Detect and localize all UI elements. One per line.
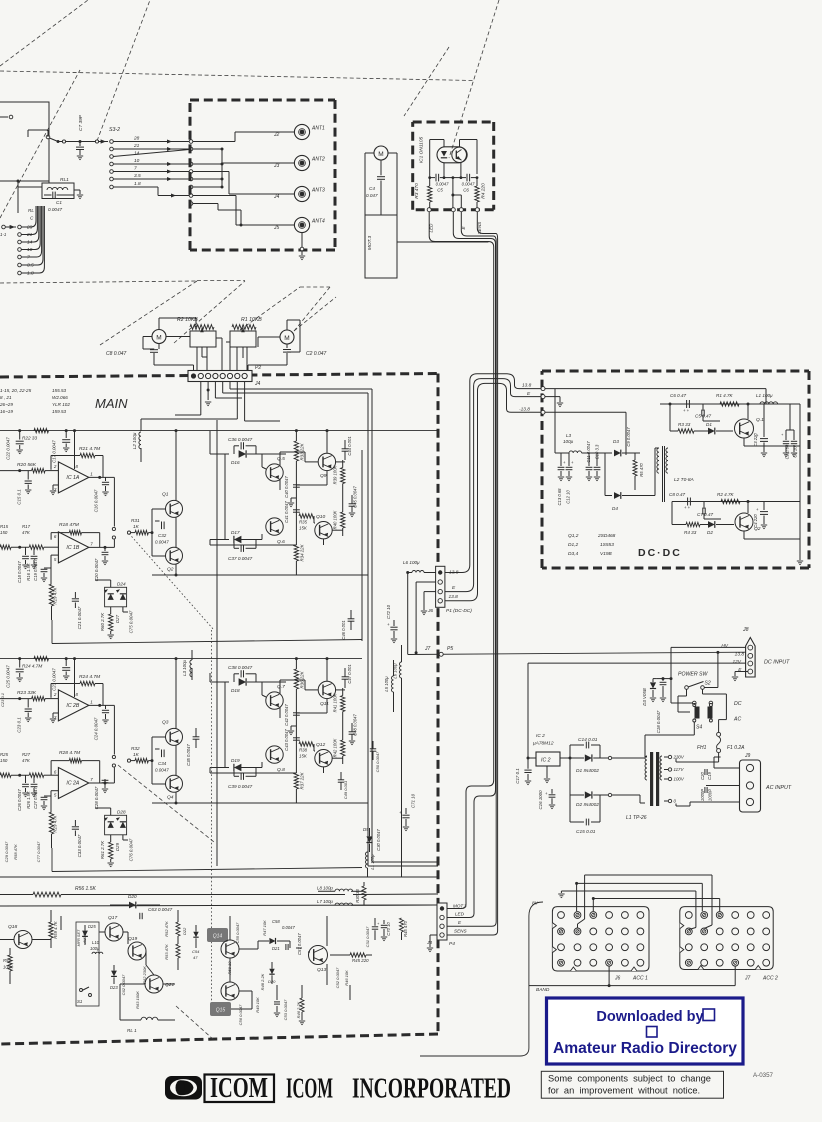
svg-text:C8 0.47: C8 0.47: [669, 492, 686, 497]
svg-text:L6 100μ: L6 100μ: [403, 560, 420, 565]
svg-text:R28 4.7M: R28 4.7M: [59, 750, 81, 756]
svg-text:F1 0.2A: F1 0.2A: [727, 745, 745, 751]
svg-text:R24 4.7M: R24 4.7M: [79, 674, 101, 680]
svg-text:C26 0.0047: C26 0.0047: [17, 789, 22, 811]
svg-text:D3,4: D3,4: [568, 551, 578, 557]
svg-text:V19B: V19B: [600, 551, 613, 557]
svg-text:C46 0.001: C46 0.001: [341, 620, 346, 639]
svg-text:C28 0.0047: C28 0.0047: [94, 786, 99, 809]
svg-text:ACC 2: ACC 2: [762, 976, 778, 982]
svg-text:1K: 1K: [133, 524, 140, 529]
svg-text:D24: D24: [117, 581, 126, 586]
svg-text:J6: J6: [614, 976, 621, 982]
svg-text:12V: 12V: [732, 659, 741, 665]
svg-text:C15 0.01: C15 0.01: [576, 829, 596, 835]
svg-text:C29 0.0047: C29 0.0047: [4, 841, 9, 862]
svg-text:155.53: 155.53: [52, 388, 66, 393]
svg-text:J7: J7: [424, 646, 431, 652]
svg-text:1000P: 1000P: [700, 789, 705, 801]
svg-text:C39 0.0047: C39 0.0047: [228, 784, 253, 789]
svg-text:SENS: SENS: [454, 929, 467, 934]
svg-text:D19: D19: [231, 758, 240, 763]
svg-text:117V: 117V: [674, 767, 685, 772]
svg-text:L2 100μ: L2 100μ: [132, 432, 137, 449]
svg-text:2: 2: [53, 692, 57, 697]
svg-text:Q10: Q10: [316, 514, 326, 520]
svg-text:AC INPUT: AC INPUT: [765, 785, 792, 791]
svg-text:D22: D22: [182, 927, 187, 935]
svg-text:Q.7: Q.7: [277, 684, 285, 690]
svg-text:R2 4.7K: R2 4.7K: [717, 492, 735, 497]
svg-text:C18 0.0047: C18 0.0047: [656, 710, 661, 733]
svg-text:47K: 47K: [22, 530, 31, 535]
svg-text:R29 47K: R29 47K: [53, 814, 58, 832]
svg-text:R16 1.5K: R16 1.5K: [26, 563, 31, 581]
svg-text:L1 100μ: L1 100μ: [370, 854, 375, 870]
svg-text:D2 IN4002: D2 IN4002: [576, 802, 599, 808]
svg-text:C43 0.0047: C43 0.0047: [284, 729, 289, 751]
svg-text:DC·DC: DC·DC: [638, 547, 682, 559]
svg-text:MOT.3: MOT.3: [367, 236, 373, 251]
svg-text:P2: P2: [255, 365, 261, 371]
svg-text:MFR SET: MFR SET: [77, 929, 81, 946]
svg-text:R52 47K: R52 47K: [164, 921, 169, 937]
svg-text:HV: HV: [721, 643, 728, 649]
svg-text:D5: D5: [363, 827, 369, 832]
svg-text:R24 4.7M: R24 4.7M: [22, 664, 42, 669]
svg-text:C31 0.0047: C31 0.0047: [365, 926, 370, 947]
svg-text:R53 47K: R53 47K: [164, 944, 169, 960]
svg-text:S1: S1: [77, 999, 83, 1004]
svg-text:C6 0.47: C6 0.47: [670, 393, 687, 398]
svg-text:ANT3: ANT3: [311, 188, 325, 194]
svg-text:YLR 102: YLR 102: [52, 402, 70, 407]
svg-text:C16 1000: C16 1000: [538, 790, 543, 810]
svg-text:C57 0.0047: C57 0.0047: [297, 933, 302, 955]
svg-text:C25 0.0047: C25 0.0047: [6, 665, 11, 688]
svg-text:P4: P4: [449, 941, 455, 947]
svg-text:Q1,2: Q1,2: [568, 533, 579, 539]
svg-text:MAIN: MAIN: [95, 396, 128, 411]
svg-text:R17: R17: [22, 524, 31, 529]
svg-text:R21 4.7M: R21 4.7M: [79, 446, 101, 452]
svg-text:ANT4: ANT4: [311, 219, 325, 225]
svg-text:Q9: Q9: [320, 473, 327, 479]
svg-text:C37 0.0047: C37 0.0047: [228, 556, 253, 561]
svg-text:W2.066: W2.066: [52, 395, 68, 400]
svg-text:C19: C19: [707, 771, 712, 779]
svg-text:R3 470: R3 470: [414, 183, 420, 199]
svg-text:ANT2: ANT2: [311, 157, 325, 163]
svg-text:R5 470: R5 470: [639, 463, 644, 477]
svg-text:L10: L10: [92, 940, 100, 945]
svg-text:R25: R25: [0, 752, 9, 757]
svg-text:Q15: Q15: [216, 1008, 226, 1014]
svg-text:R39 100K: R39 100K: [333, 465, 338, 484]
svg-text:1S553: 1S553: [600, 542, 614, 548]
svg-text:D16: D16: [231, 460, 240, 465]
svg-text:IC 1B: IC 1B: [66, 545, 80, 551]
svg-text:C45 0.0047: C45 0.0047: [353, 486, 358, 508]
svg-text:C76 0.0047: C76 0.0047: [129, 838, 134, 861]
svg-text:MOT.3: MOT.3: [453, 904, 467, 909]
svg-text:LED: LED: [455, 912, 465, 917]
svg-text:R58 47K: R58 47K: [13, 844, 18, 860]
svg-text:Q1: Q1: [162, 492, 169, 498]
svg-text:C62 0.0047: C62 0.0047: [121, 974, 126, 995]
svg-text:R41 100K: R41 100K: [333, 693, 338, 712]
svg-text:0.047: 0.047: [366, 193, 378, 198]
svg-text:R15: R15: [0, 524, 9, 529]
svg-text:C50 0.0047: C50 0.0047: [375, 751, 380, 772]
svg-text:-13.8: -13.8: [519, 407, 530, 413]
svg-text:R40 100K: R40 100K: [333, 510, 338, 529]
svg-text:0.0047: 0.0047: [436, 182, 449, 187]
svg-text:C23 0.1: C23 0.1: [17, 717, 22, 733]
svg-text:R47 10K: R47 10K: [262, 920, 267, 936]
svg-text:C21 0.0047: C21 0.0047: [77, 606, 82, 629]
svg-text:DC: DC: [734, 701, 742, 707]
svg-text:IC1 ON1105: IC1 ON1105: [419, 137, 425, 164]
svg-text:C9 0.0047: C9 0.0047: [626, 427, 631, 447]
svg-text:AC: AC: [733, 717, 741, 723]
svg-text:IC 2: IC 2: [541, 758, 551, 764]
svg-text:ACC 1: ACC 1: [632, 976, 648, 982]
svg-text:ICOM: ICOM: [286, 1073, 333, 1105]
svg-text:R4 33: R4 33: [684, 530, 697, 535]
svg-text:Q.8: Q.8: [277, 767, 285, 773]
svg-text:0.0047: 0.0047: [155, 768, 169, 773]
svg-text:for an improvement without not: for an improvement without notice.: [548, 1086, 700, 1096]
svg-text:C42 0.0047: C42 0.0047: [284, 704, 289, 726]
svg-text:C55 0.0047: C55 0.0047: [235, 922, 240, 943]
svg-text:L1 TP-26: L1 TP-26: [626, 815, 647, 821]
svg-text:J5: J5: [273, 225, 280, 231]
svg-text:C32: C32: [158, 533, 167, 538]
svg-text:15K: 15K: [299, 526, 308, 531]
svg-text:SENS: SENS: [477, 221, 482, 234]
svg-text:R27: R27: [22, 752, 31, 757]
svg-text:Q2: Q2: [167, 567, 174, 573]
svg-text:26~29: 26~29: [0, 402, 13, 407]
svg-text:Q13: Q13: [317, 967, 327, 973]
svg-text:C44 0.001: C44 0.001: [347, 436, 352, 455]
svg-text:13.8: 13.8: [522, 383, 532, 389]
svg-text:Downloaded by: Downloaded by: [596, 1009, 703, 1025]
svg-text:R32: R32: [131, 746, 140, 751]
svg-text:159.53: 159.53: [52, 409, 66, 414]
svg-text:C35 0.0047: C35 0.0047: [186, 744, 191, 766]
svg-text:R20 56K: R20 56K: [17, 462, 37, 468]
svg-text:C5: C5: [437, 188, 443, 193]
svg-text:C6: C6: [463, 188, 469, 193]
svg-text:R18 47M: R18 47M: [59, 522, 80, 528]
svg-text:21: 21: [133, 143, 140, 149]
svg-text:FH1: FH1: [697, 745, 707, 751]
svg-text:8 , 21: 8 , 21: [0, 395, 12, 400]
svg-text:C7 39P: C7 39P: [78, 114, 84, 131]
svg-text:J7: J7: [744, 976, 751, 982]
svg-text:R36 22K: R36 22K: [300, 670, 305, 688]
svg-text:J3: J3: [273, 163, 280, 169]
svg-text:J6: J6: [427, 608, 433, 614]
svg-text:47K: 47K: [22, 758, 31, 763]
svg-text:ANT1: ANT1: [311, 126, 325, 132]
svg-text:J9: J9: [744, 753, 751, 759]
svg-text:BAND: BAND: [536, 987, 550, 993]
svg-text:C56 0.0047: C56 0.0047: [238, 1004, 243, 1025]
svg-text:L5 100μ: L5 100μ: [384, 676, 389, 692]
svg-text:0.0047: 0.0047: [48, 207, 62, 212]
svg-text:C2 0.047: C2 0.047: [306, 351, 327, 357]
svg-text:0.0047: 0.0047: [462, 182, 475, 187]
svg-text:IC 2A: IC 2A: [66, 781, 80, 787]
svg-text:13.8: 13.8: [449, 594, 459, 600]
svg-text:C1 10: C1 10: [793, 446, 798, 458]
svg-text:D1,2: D1,2: [568, 542, 578, 548]
svg-text:C53 0.0047: C53 0.0047: [283, 999, 288, 1020]
svg-text:150: 150: [0, 530, 8, 535]
svg-text:D2: D2: [707, 530, 713, 535]
svg-text:C18 0.0047: C18 0.0047: [17, 561, 22, 583]
svg-text:J4: J4: [273, 194, 280, 200]
svg-text:0.0047: 0.0047: [155, 540, 169, 545]
svg-text:2: 2: [53, 464, 57, 469]
svg-text:IC 2: IC 2: [536, 733, 545, 739]
svg-text:R45 470: R45 470: [403, 920, 408, 937]
svg-text:C72 10: C72 10: [386, 604, 391, 619]
svg-text:0.0047: 0.0047: [282, 925, 295, 930]
svg-text:P5: P5: [447, 646, 453, 652]
svg-text:R30 33: R30 33: [355, 889, 360, 903]
svg-text:C47 0.001: C47 0.001: [347, 664, 352, 683]
svg-text:Q4: Q4: [167, 795, 174, 801]
svg-text:S4: S4: [696, 725, 702, 731]
svg-text:2SD468: 2SD468: [597, 533, 616, 539]
svg-text:+ +: + +: [684, 505, 691, 510]
svg-text:J4: J4: [254, 381, 261, 387]
svg-text:C16 0.0047: C16 0.0047: [94, 489, 99, 512]
svg-text:C36 0.0047: C36 0.0047: [228, 437, 253, 442]
svg-text:D20: D20: [128, 894, 137, 899]
svg-text:D25: D25: [88, 924, 96, 929]
svg-text:1.8: 1.8: [134, 181, 141, 187]
svg-text:IC 2B: IC 2B: [66, 703, 80, 709]
svg-text:Some components subject to cha: Some components subject to change: [548, 1074, 711, 1084]
svg-text:L7 100μ: L7 100μ: [317, 899, 333, 904]
svg-text:C49 0.001: C49 0.001: [343, 781, 348, 799]
svg-text:J2: J2: [273, 132, 280, 138]
svg-text:D17: D17: [231, 530, 240, 535]
svg-text:D1: D1: [706, 422, 712, 427]
svg-text:1K: 1K: [133, 752, 140, 757]
svg-text:R46 10K: R46 10K: [344, 970, 349, 986]
svg-text:INCORPORATED: INCORPORATED: [352, 1073, 511, 1105]
svg-text:C38 0.0047: C38 0.0047: [228, 665, 253, 670]
svg-text:R23 33K: R23 33K: [17, 690, 37, 696]
svg-text:Q19: Q19: [128, 936, 138, 942]
svg-text:C20 0.0047: C20 0.0047: [94, 558, 99, 581]
svg-text:R19 47K: R19 47K: [53, 586, 58, 604]
svg-text:D1 IN4002: D1 IN4002: [576, 768, 599, 774]
svg-text:C15 0.1: C15 0.1: [17, 489, 22, 505]
svg-text:Q12: Q12: [316, 742, 326, 748]
svg-text:15K: 15K: [299, 754, 308, 759]
svg-text:+: +: [387, 622, 390, 627]
svg-text:1-15, 20, 22-25: 1-15, 20, 22-25: [0, 388, 32, 393]
svg-text:3.5: 3.5: [134, 173, 141, 179]
svg-text:100V: 100V: [674, 777, 685, 782]
svg-text:C30 0.0047: C30 0.0047: [376, 829, 381, 851]
svg-text:C24 0.0047: C24 0.0047: [94, 717, 99, 740]
svg-text:C13 0.68: C13 0.68: [557, 488, 562, 506]
svg-text:μA78M12: μA78M12: [532, 741, 554, 747]
svg-text:POWER SW: POWER SW: [678, 672, 708, 678]
svg-text:C22 0.0047: C22 0.0047: [6, 437, 11, 460]
svg-text:S2: S2: [705, 681, 711, 687]
svg-text:D18: D18: [231, 688, 240, 693]
svg-text:C54: C54: [192, 949, 200, 954]
svg-text:C34: C34: [158, 761, 167, 766]
svg-text:R49 10K: R49 10K: [255, 997, 260, 1013]
svg-text:1000P: 1000P: [708, 789, 713, 801]
svg-text:Q21: Q21: [165, 982, 175, 988]
svg-text:Amateur Radio Directory: Amateur Radio Directory: [553, 1040, 737, 1057]
svg-text:Q11: Q11: [320, 701, 329, 707]
svg-text:Q.1: Q.1: [756, 417, 764, 423]
svg-text:R42 100K: R42 100K: [333, 738, 338, 757]
svg-text:C20: C20: [700, 771, 705, 779]
svg-text:C70 10: C70 10: [386, 922, 391, 936]
svg-text:C75 0.0047: C75 0.0047: [129, 610, 134, 633]
svg-text:Q.5: Q.5: [277, 456, 285, 462]
svg-text:DC INPUT: DC INPUT: [764, 660, 790, 666]
svg-text:C14 0.01: C14 0.01: [578, 737, 598, 743]
svg-text:L2 T0-8A: L2 T0-8A: [674, 477, 694, 483]
svg-text:100μ: 100μ: [90, 946, 100, 951]
svg-text:R3 33: R3 33: [678, 422, 691, 427]
svg-text:D3 V05B: D3 V05B: [642, 688, 647, 706]
svg-text:Q.6: Q.6: [277, 539, 285, 545]
svg-text:C4 220: C4 220: [753, 514, 758, 528]
svg-text:R33 22K: R33 22K: [300, 442, 305, 460]
svg-text:R60 2.7K: R60 2.7K: [100, 612, 105, 631]
svg-text:C12 10: C12 10: [566, 490, 571, 504]
svg-text:C8 0.047: C8 0.047: [106, 351, 127, 357]
svg-text:L8 100μ: L8 100μ: [317, 886, 333, 891]
svg-text:LED: LED: [429, 223, 434, 233]
svg-text:D4: D4: [612, 506, 618, 511]
svg-text:47: 47: [193, 955, 198, 960]
svg-text:L3: L3: [566, 433, 572, 438]
svg-text:Q3: Q3: [162, 720, 169, 726]
svg-text:13.8: 13.8: [735, 651, 745, 657]
svg-text:D27: D27: [115, 614, 120, 623]
svg-text:RL1: RL1: [60, 177, 69, 183]
svg-text:14: 14: [134, 150, 140, 156]
svg-text:C48 0.0047: C48 0.0047: [353, 714, 358, 736]
svg-text:R61 2.7K: R61 2.7K: [100, 840, 105, 859]
svg-text:100μ: 100μ: [563, 439, 574, 444]
svg-text:D3: D3: [613, 439, 619, 444]
svg-text:10: 10: [134, 158, 140, 164]
svg-text:L3 100μ: L3 100μ: [182, 659, 187, 675]
svg-text:M: M: [378, 151, 383, 158]
svg-text:D23: D23: [110, 985, 118, 990]
svg-text:16~19: 16~19: [0, 409, 13, 414]
svg-text:R59 4.7K: R59 4.7K: [53, 921, 58, 939]
svg-text:R62 230K: R62 230K: [142, 966, 147, 984]
svg-text:R22 33: R22 33: [22, 436, 38, 441]
svg-text:C40 0.0047: C40 0.0047: [284, 476, 289, 498]
svg-text:230V: 230V: [673, 755, 685, 760]
svg-text:1-1: 1-1: [0, 232, 7, 237]
svg-text:R63 100K: R63 100K: [135, 991, 140, 1009]
svg-text:+ +: + +: [683, 408, 690, 413]
svg-text:R1 10KB: R1 10KB: [241, 317, 262, 323]
svg-text:C19 0.0047: C19 0.0047: [33, 559, 38, 581]
svg-text:R1 4.7K: R1 4.7K: [716, 393, 734, 398]
svg-text:C58: C58: [272, 919, 280, 924]
svg-text:P1 (DC-DC): P1 (DC-DC): [446, 608, 472, 614]
svg-text:R56 1.5K: R56 1.5K: [75, 886, 97, 892]
svg-text:R26 1.5K: R26 1.5K: [26, 791, 31, 809]
svg-text:M: M: [284, 335, 289, 342]
svg-text:28: 28: [133, 135, 140, 141]
svg-text:C23 0.0047: C23 0.0047: [52, 668, 57, 691]
svg-text:S3-2: S3-2: [109, 127, 120, 133]
svg-text:Q14: Q14: [213, 934, 223, 940]
svg-text:C52 0.0047: C52 0.0047: [335, 967, 340, 988]
svg-text:C23 0.1: C23 0.1: [0, 693, 5, 707]
svg-text:J8: J8: [742, 627, 749, 633]
svg-text:150: 150: [0, 758, 8, 763]
svg-text:R35: R35: [299, 520, 308, 525]
svg-text:R4 220: R4 220: [481, 183, 487, 199]
svg-text:C41 0.0047: C41 0.0047: [284, 501, 289, 523]
svg-text:C4: C4: [369, 186, 375, 191]
svg-text:ICOM: ICOM: [210, 1072, 268, 1104]
svg-text:C1: C1: [56, 200, 62, 205]
svg-text:C77 0.0047: C77 0.0047: [36, 841, 41, 862]
svg-text:C17 0.0047: C17 0.0047: [52, 440, 57, 463]
svg-text:+: +: [399, 810, 402, 815]
svg-text:R37 22K: R37 22K: [300, 771, 305, 789]
svg-text:R34 22K: R34 22K: [300, 543, 305, 561]
svg-text:R31: R31: [131, 518, 140, 523]
svg-text:RL 1: RL 1: [127, 1028, 137, 1033]
svg-text:C27 0.0047: C27 0.0047: [33, 787, 38, 809]
svg-text:IC 1A: IC 1A: [66, 475, 80, 481]
svg-text:R45 220: R45 220: [352, 958, 369, 963]
svg-text:Q18: Q18: [8, 924, 18, 930]
svg-text:C63 0.0047: C63 0.0047: [148, 907, 173, 912]
svg-text:D29: D29: [115, 842, 120, 851]
svg-text:C71 10: C71 10: [411, 793, 416, 808]
svg-text:R38: R38: [299, 748, 308, 753]
svg-text:D28: D28: [117, 809, 126, 814]
svg-text:C17 0.1: C17 0.1: [515, 768, 520, 784]
svg-text:M: M: [156, 335, 161, 342]
svg-text:A-0357: A-0357: [753, 1072, 774, 1079]
svg-text:J3: J3: [426, 940, 432, 946]
svg-text:C33 0.0047: C33 0.0047: [77, 834, 82, 857]
svg-text:7: 7: [134, 165, 137, 171]
svg-text:L1 100μ: L1 100μ: [756, 393, 773, 398]
svg-text:R48 2.2K: R48 2.2K: [260, 973, 265, 990]
svg-text:Q17: Q17: [108, 915, 118, 921]
svg-text:RL: RL: [28, 208, 34, 213]
